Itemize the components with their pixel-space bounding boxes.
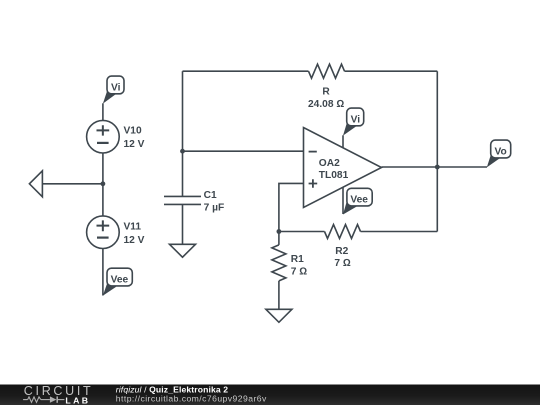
svg-text:7 Ω: 7 Ω [334,258,350,269]
svg-text:12 V: 12 V [124,235,145,246]
svg-text:Vee: Vee [350,194,368,205]
footer logo circuit glyph [23,396,64,402]
wire non-inverting branch [279,183,304,231]
op-amp OA2 pin V- wire [342,187,344,214]
svg-text:7 Ω: 7 Ω [291,266,307,277]
svg-text:OA2: OA2 [319,158,340,169]
flag Vi op-amp [343,108,364,136]
wire V10 to V11 [102,153,104,216]
wire bottom right [361,231,438,233]
svg-text:Vi: Vi [111,82,121,93]
flag Vee op-amp [343,188,372,214]
svg-text:TL081: TL081 [319,170,349,181]
svg-text:V11: V11 [124,222,142,233]
wire bottom left [279,231,325,233]
wire right vertical [436,71,438,231]
svg-text:24.08 Ω: 24.08 Ω [308,99,344,110]
op-amp plus input symbol [309,179,318,188]
svg-text:C1: C1 [204,190,217,201]
wire inverting input [183,150,304,152]
wire top horizontal right [345,70,438,72]
resistor R [309,64,345,78]
svg-text:Vi: Vi [351,114,361,125]
svg-text:LAB: LAB [65,396,90,405]
ground under C1 [170,244,196,257]
wire Vi flag to V10 [102,103,104,120]
resistor R1 [272,245,286,281]
svg-text:12 V: 12 V [124,139,145,150]
flag Vee left [103,268,133,296]
svg-text:R: R [322,87,330,98]
resistor R2 [325,225,361,239]
op-amp OA2 triangle [304,128,382,208]
wire output [382,166,488,168]
node junction R1/R2 [277,229,282,234]
flag Vo [487,140,511,167]
svg-text:7 µF: 7 µF [204,202,225,213]
wire R1 top stub [278,232,280,245]
svg-text:Vee: Vee [111,274,129,285]
voltage source V11 [87,216,120,249]
voltage source V10 [87,120,120,153]
op-amp OA2 pin V+ wire [342,135,344,148]
footer bar [0,385,540,405]
wire V11 bottom [102,249,104,296]
flag Vi left [103,76,124,104]
capacitor C1 plates [164,196,201,204]
node junction C1/feedback [180,149,185,154]
svg-text:R2: R2 [335,246,348,257]
wire feedback top-left vertical [182,71,184,196]
svg-text:Vo: Vo [494,146,506,157]
svg-text:http://circuitlab.com/c76upv92: http://circuitlab.com/c76upv929ar6v [116,393,267,403]
node junction left rail [101,181,106,186]
wire to left ground [42,183,103,185]
svg-text:V10: V10 [124,126,142,137]
op-amp minus input symbol [309,151,317,153]
node junction output [435,165,440,170]
wire R1 bottom stub [278,281,280,309]
ground left [29,171,42,197]
wire top horizontal left [183,70,309,72]
svg-text:R1: R1 [291,254,304,265]
wire C1 to ground [182,204,184,244]
ground under R1 [266,309,292,322]
